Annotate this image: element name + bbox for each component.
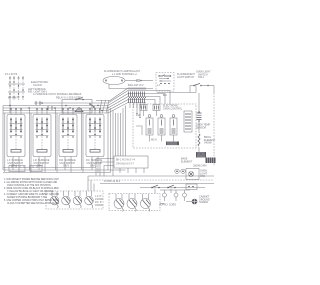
wire bus line 1 <box>3 94 146 106</box>
svg-text:OR-5 BU-6 GY-7: OR-5 BU-6 GY-7 <box>116 163 135 166</box>
svg-text:3400W: 3400W <box>204 142 212 145</box>
svg-text:SW-2: SW-2 <box>198 76 205 79</box>
relay contact on box <box>89 103 91 105</box>
hi-limit box <box>62 100 92 114</box>
svg-text:1500W: 1500W <box>95 204 103 207</box>
surface unit RR <box>73 196 82 208</box>
wire band line 1 <box>3 169 126 171</box>
connector drops into control <box>130 103 144 108</box>
wire to supply <box>160 203 164 205</box>
wire from fixture across <box>157 86 196 93</box>
svg-text:RELAY K-1 SEE NOTE 3: RELAY K-1 SEE NOTE 3 <box>56 96 83 99</box>
svg-text:DLB: DLB <box>136 114 141 117</box>
SECTION: top-right light switches <box>156 71 214 98</box>
wire band line 4 (dashed) <box>88 179 214 181</box>
door switch SW-8 <box>167 187 169 189</box>
svg-text:SENSOR: SENSOR <box>196 126 206 129</box>
convect element B3 <box>141 199 151 212</box>
connector block CN1 (hatched) <box>166 142 179 146</box>
door switch SW-7 <box>151 187 153 189</box>
SECTION: notes <box>4 179 59 205</box>
ticks under relay <box>196 153 206 155</box>
switch SW-RF body <box>86 108 104 173</box>
svg-text:40W: 40W <box>200 175 206 178</box>
bake relay block 2 (hatched) <box>196 152 206 158</box>
oven light switch SW2 <box>190 85 193 87</box>
relay K1 <box>148 115 151 118</box>
wire bus line 3 <box>3 100 146 111</box>
broil element B2 <box>127 199 137 212</box>
fixture internals <box>159 75 172 77</box>
left vertical bus <box>108 106 126 177</box>
wires right of connector <box>146 91 170 105</box>
SECTION: surface unit switches <box>3 106 104 173</box>
wire band line 6 <box>140 187 205 189</box>
terminal board TB1 <box>114 156 148 168</box>
svg-text:OVEN CONTROLS IN THE OFF POSIT: OVEN CONTROLS IN THE OFF POSITION <box>7 185 51 187</box>
svg-text:L.F. 8": L.F. 8" <box>95 195 102 198</box>
svg-text:L-1 AND STARTER L-2: L-1 AND STARTER L-2 <box>112 73 137 76</box>
svg-text:L1 SURFACE UNIT N DOUBLE: L1 SURFACE UNIT N DOUBLE LINE BREAK <box>33 93 82 96</box>
internal wire L <box>136 126 142 135</box>
wire left edge pair <box>3 106 5 173</box>
blade drop stubs <box>155 189 171 194</box>
svg-text:MC-6: MC-6 <box>151 139 158 142</box>
SECTION: top-left connector plug <box>5 73 48 113</box>
transformer T2 <box>153 105 160 111</box>
relay K3 <box>172 115 175 118</box>
fuse F1 <box>175 169 179 173</box>
TB exit wires left <box>96 159 114 177</box>
supply terminal L2 <box>183 193 187 197</box>
transformer T1 <box>140 105 147 111</box>
SECTION: wiring bus and connector <box>3 88 170 113</box>
TB exit wires bottom <box>120 168 144 173</box>
corner drops to burners <box>88 176 94 191</box>
wire lamp bottom <box>109 85 153 89</box>
junction box JB1 <box>9 166 25 172</box>
svg-text:SW-5: SW-5 <box>63 165 70 168</box>
broil element coil <box>198 134 200 146</box>
connector J1 comb row 2 <box>129 98 145 103</box>
wire gap pair C <box>82 108 84 173</box>
oven sensor component <box>197 113 202 120</box>
supply terminal N <box>174 193 178 197</box>
wire upper feed <box>34 91 146 104</box>
svg-text:R.F. 6": R.F. 6" <box>95 201 102 204</box>
riser wires to fan <box>99 100 109 113</box>
starter S1 <box>137 79 139 82</box>
terminal block TB2 <box>186 184 197 190</box>
svg-text:SW-6: SW-6 <box>90 165 97 168</box>
SECTION: top-center fluorescent lamp <box>103 70 153 89</box>
svg-text:SUPPLY CORD: SUPPLY CORD <box>159 204 176 207</box>
supply cord rail <box>160 189 190 191</box>
relay bottom stubs <box>150 135 174 142</box>
switch SW-LF body <box>7 108 25 173</box>
connector P1 pins <box>8 76 25 100</box>
svg-text:BK-1 R-2 W-3 Y-4: BK-1 R-2 W-3 Y-4 <box>116 159 136 162</box>
wire bus line 4 <box>3 103 146 114</box>
junction box JB2 <box>30 166 42 172</box>
svg-text:FLUORESCENT LAMP BALLAST: FLUORESCENT LAMP BALLAST <box>104 70 141 73</box>
svg-text:LIGHT SWITCH: LIGHT SWITCH <box>177 76 194 79</box>
supply terminal L1 <box>163 193 167 197</box>
SECTION: middle wire band <box>3 166 214 194</box>
svg-text:SCREW: SCREW <box>199 201 209 204</box>
feed stubs into left enclosure <box>52 191 92 196</box>
SECTION: electronic control <box>96 104 196 177</box>
wire stub <box>189 86 191 93</box>
svg-text:P1-1 P2 P3: P1-1 P2 P3 <box>5 73 18 76</box>
wire gap pair B <box>56 108 58 173</box>
svg-text:ELEMENT: ELEMENT <box>181 160 193 163</box>
connector J1 comb row 1 <box>129 92 145 97</box>
surface unit RF <box>85 196 94 208</box>
svg-text:OVEN CONTROL: OVEN CONTROL <box>163 107 183 110</box>
fluorescent fixture box (dashed) <box>156 73 174 92</box>
connector contact dots <box>129 97 146 98</box>
surface unit LR <box>62 196 71 208</box>
svg-text:BK-8 W-7: BK-8 W-7 <box>8 96 19 99</box>
switch SW-LR body <box>33 108 51 173</box>
wire band line 0 <box>3 167 96 169</box>
wire from plug down <box>9 100 11 113</box>
SECTION: burners and supply <box>46 184 210 212</box>
wire gap pair A <box>30 108 32 173</box>
thermostat symbol in box <box>75 108 83 112</box>
right margin dashed wire <box>213 93 215 166</box>
cabinet ground G1 <box>192 199 198 205</box>
svg-text:BALLAST W-2: BALLAST W-2 <box>128 84 144 87</box>
hi-limit contact <box>75 99 77 101</box>
bake relay block (hatched) <box>206 158 216 164</box>
feed stubs into right enclosure <box>116 194 149 199</box>
wire right edge down <box>213 86 215 94</box>
SECTION: right column <box>181 93 216 168</box>
heater block H1 <box>184 111 192 132</box>
wire band line 3 <box>88 175 214 177</box>
control board dashed enclosure EOC <box>133 104 196 148</box>
svg-text:2100W: 2100W <box>95 198 103 201</box>
svg-text:2600W 240V: 2600W 240V <box>193 165 207 168</box>
surface units enclosure left (dashed) <box>46 191 103 209</box>
wire bus line 2 <box>3 97 146 109</box>
terminal dots on bus <box>9 105 10 106</box>
wire lamp to starter <box>125 80 137 82</box>
terminal symbols left <box>36 101 40 105</box>
switch SW-RR body <box>59 108 77 173</box>
oven light OL1 <box>186 169 199 180</box>
wire band line 5 <box>100 183 214 185</box>
svg-text:1. DISCONNECT POWER BEFORE SER: 1. DISCONNECT POWER BEFORE SERVICING UNI… <box>4 179 59 181</box>
bake element B1 <box>114 199 124 212</box>
oven elements enclosure right (dashed) <box>109 194 160 211</box>
wire band line 2 <box>3 172 111 174</box>
wire upper feed 2 <box>96 88 146 101</box>
svg-text:P-9 BK-12 W-4: P-9 BK-12 W-4 <box>104 180 121 183</box>
fluorescent lamp FL1 <box>103 77 125 85</box>
surface unit LF <box>50 196 59 208</box>
relay K2 <box>160 115 163 118</box>
internal stubs <box>137 104 157 117</box>
wire right column <box>198 93 200 152</box>
connector top rail <box>128 88 146 90</box>
